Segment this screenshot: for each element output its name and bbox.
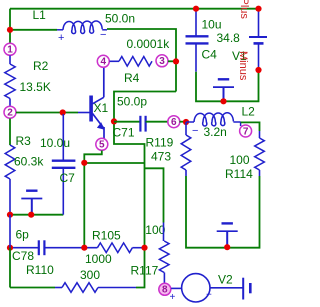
node 3 (156, 55, 168, 67)
junction dot C7 top (60, 109, 66, 115)
node 5 (96, 138, 108, 150)
svg-text:−: − (192, 125, 198, 137)
svg-text:5: 5 (99, 140, 105, 151)
wire top rail (10, 8, 259, 10)
wire V2 to battery (210, 287, 243, 289)
svg-text:V2: V2 (218, 273, 233, 287)
junction dot Minus tap (255, 67, 261, 73)
node 1 (4, 43, 16, 55)
svg-text:10.0u: 10.0u (40, 136, 70, 150)
wire to L1 (10, 29, 57, 31)
svg-text:L1: L1 (33, 8, 47, 22)
capacitor C71 (114, 116, 168, 132)
svg-text:4: 4 (101, 57, 107, 68)
junction dot (81, 160, 87, 166)
svg-text:Plus: Plus (238, 0, 250, 19)
battery V2 plates (243, 278, 250, 300)
resistor R105 (97, 243, 144, 253)
node 8 (159, 283, 171, 295)
capacitor C4 (186, 9, 209, 72)
resistor R117 (159, 223, 169, 284)
svg-text:7: 7 (243, 126, 249, 137)
resistor R2 (5, 55, 15, 106)
ground symbol bottom right (217, 223, 238, 247)
junction dot (7, 245, 13, 251)
resistor R3 (5, 145, 15, 179)
svg-text:−: − (100, 29, 106, 41)
svg-text:R114: R114 (225, 167, 253, 181)
junction dot (255, 6, 261, 12)
junction dot (7, 212, 13, 218)
svg-text:3: 3 (159, 56, 165, 67)
node 7 (240, 125, 252, 137)
svg-text:50.0p: 50.0p (117, 95, 147, 109)
junction dot ground (224, 244, 230, 250)
svg-text:473: 473 (151, 150, 171, 164)
junction dot (183, 119, 189, 125)
svg-text:Minus: Minus (237, 51, 249, 81)
svg-text:0.0001k: 0.0001k (127, 37, 171, 51)
wire node2 down to R3 (9, 119, 11, 146)
junction dot (141, 245, 147, 251)
wire left drop to node 1 (9, 9, 11, 44)
resistor R119 (181, 122, 191, 176)
wire node5 bend down (84, 151, 102, 248)
wire top-right loop bottom (196, 70, 259, 101)
svg-text:60.3k: 60.3k (14, 155, 44, 169)
svg-text:R110: R110 (26, 263, 54, 277)
svg-text:10u: 10u (202, 18, 222, 32)
ground symbol mid-left (21, 191, 42, 215)
inductor L2 (186, 113, 241, 126)
wire jog to R117 (145, 168, 164, 222)
svg-text:R117: R117 (131, 264, 159, 278)
junction dot (193, 6, 199, 12)
ground symbol top right (213, 79, 234, 101)
wire node6 to L2 (180, 121, 188, 123)
wire node3 to vertical (168, 60, 176, 62)
svg-text:R105: R105 (92, 229, 121, 243)
X1 base lead (78, 112, 90, 114)
svg-text:6p: 6p (16, 228, 30, 242)
junction dot (81, 245, 87, 251)
node 4 (97, 55, 109, 67)
svg-text:R119: R119 (146, 136, 174, 150)
junction dot (173, 58, 179, 64)
resistor R110 (55, 283, 136, 293)
svg-text:L2: L2 (242, 105, 256, 119)
resistor R114 (255, 131, 265, 176)
capacitor C7 (52, 114, 76, 215)
svg-text:+: + (58, 32, 64, 44)
junction dot ground (220, 98, 226, 104)
svg-text:R4: R4 (124, 71, 140, 85)
svg-text:C71: C71 (113, 126, 135, 140)
svg-text:2: 2 (7, 108, 13, 119)
R3 bottom lead (9, 179, 11, 215)
svg-text:1: 1 (7, 45, 13, 56)
svg-text:C78: C78 (12, 249, 34, 263)
svg-text:6: 6 (171, 117, 177, 128)
wire ground rail mid-left (10, 214, 63, 216)
svg-text:1000: 1000 (85, 252, 112, 266)
transistor X1 (89, 67, 104, 139)
wire left column bottom (9, 215, 11, 248)
svg-text:100: 100 (230, 153, 250, 167)
wire emitter junction to mid vertical (84, 162, 144, 164)
R4 left lead (110, 60, 120, 62)
svg-text:R3: R3 (16, 134, 32, 148)
node 6 (168, 116, 180, 128)
svg-text:3.2n: 3.2n (204, 125, 227, 139)
svg-text:100: 100 (145, 223, 165, 237)
svg-text:X1: X1 (94, 101, 109, 115)
svg-text:300: 300 (80, 268, 100, 282)
wire R4 output loop to C71 (114, 92, 176, 288)
battery V1 (249, 9, 267, 70)
wire L1 to R4 output (107, 29, 176, 92)
svg-text:50.0n: 50.0n (105, 12, 135, 26)
node 2 (4, 106, 16, 118)
svg-text:C4: C4 (202, 48, 218, 62)
junction dot ground (28, 212, 34, 218)
junction dot C71 (111, 118, 117, 124)
wire R119 to bottom right rail (186, 176, 260, 248)
wire bottom rail left (10, 287, 55, 289)
wire node7 to R114 (241, 122, 260, 131)
wire node2 to X1 base (16, 112, 78, 114)
inductor L1 (57, 21, 107, 34)
svg-text:8: 8 (162, 285, 168, 296)
svg-text:C7: C7 (60, 171, 76, 185)
resistor R4 (119, 57, 152, 67)
source V2 circle (182, 274, 210, 302)
svg-text:+: + (170, 292, 176, 303)
wire node8 to V2 (171, 287, 182, 289)
svg-text:34.8: 34.8 (217, 31, 241, 45)
svg-text:13.5K: 13.5K (20, 80, 51, 94)
capacitor C78 (10, 240, 97, 255)
svg-text:−: − (206, 290, 212, 301)
junction dot (7, 27, 13, 33)
svg-text:R2: R2 (33, 59, 49, 73)
